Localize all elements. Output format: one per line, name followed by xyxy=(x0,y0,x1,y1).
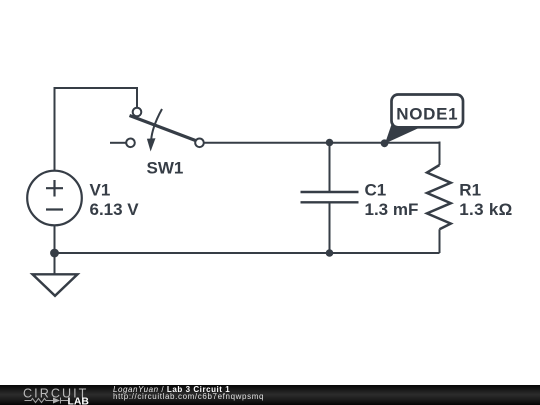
logo CircuitLab xyxy=(0,385,110,405)
node NODE1 dot xyxy=(381,139,389,147)
svg-text:LAB: LAB xyxy=(68,396,90,405)
capacitor C1 xyxy=(301,143,359,254)
ground xyxy=(33,253,78,296)
node dot: C1 top xyxy=(326,139,334,147)
switch SW1 xyxy=(110,108,204,152)
svg-text:1.3 mF: 1.3 mF xyxy=(365,200,419,219)
wire: switch output to resistor branch xyxy=(204,142,440,144)
wire: V1 bottom lead xyxy=(54,226,56,254)
svg-text:6.13 V: 6.13 V xyxy=(90,200,140,219)
wire: top horizontal xyxy=(54,87,138,89)
svg-text:R1: R1 xyxy=(459,180,481,199)
node junction dot at V1/ground xyxy=(50,249,59,258)
footer url text xyxy=(113,392,264,401)
svg-text:1.3 kΩ: 1.3 kΩ xyxy=(459,200,512,219)
resistor R1 xyxy=(427,142,451,254)
node NODE1 callout box xyxy=(392,95,464,128)
node dot: C1 bottom xyxy=(326,249,334,257)
footer bar xyxy=(0,385,540,405)
svg-text:V1: V1 xyxy=(90,180,111,199)
voltage source V1 xyxy=(27,171,82,226)
svg-text:C1: C1 xyxy=(365,180,387,199)
svg-text:NODE1: NODE1 xyxy=(396,105,458,124)
wire: V1 top to corner xyxy=(54,88,56,172)
svg-text:SW1: SW1 xyxy=(147,159,184,178)
wire: down into switch terminal xyxy=(136,87,138,107)
footer title text xyxy=(113,385,230,394)
node NODE1 callout tail xyxy=(385,122,421,144)
wire: bottom rail xyxy=(55,252,440,254)
